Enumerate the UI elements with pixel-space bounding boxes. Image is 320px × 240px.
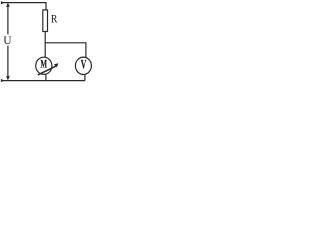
svg-text:R: R [51,13,58,26]
svg-text:U: U [3,35,12,47]
svg-text:V: V [81,59,87,72]
svg-text:M: M [40,58,47,71]
